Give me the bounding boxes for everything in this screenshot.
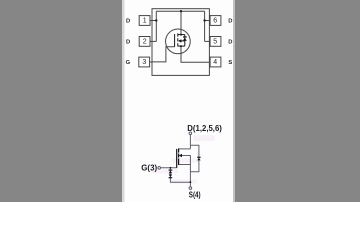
svg-text:D: D: [126, 39, 130, 45]
svg-text:5: 5: [213, 39, 217, 46]
terminal circle S: [189, 187, 192, 190]
wire source exit to pin 4: [181, 46, 209, 62]
Q1 body tap wire: [181, 40, 185, 42]
pin 5 box: [210, 37, 221, 47]
svg-text:D: D: [126, 18, 130, 24]
Q1 gate bar: [174, 34, 176, 47]
wire diode anode to source rail: [190, 160, 199, 172]
wire drain vertical: [189, 135, 191, 149]
compression artifact tints: [150, 135, 215, 184]
Q2 source tap: [179, 164, 191, 166]
wire pin3 stub: [150, 61, 152, 63]
node: drain tap junction: [180, 34, 182, 36]
Q2 channel segment source: [178, 159, 180, 166]
Q2 channel segment drain: [178, 148, 180, 152]
svg-text:S(4): S(4): [189, 190, 201, 199]
svg-text:1: 1: [143, 18, 147, 25]
Q1 channel segment drain: [177, 33, 179, 36]
Q2 gate bar: [176, 149, 178, 168]
body diode D2 cathode bar: [197, 156, 200, 158]
svg-text:3: 3: [142, 59, 146, 66]
node: pin6 bus junction: [203, 19, 205, 21]
pin labels: [126, 18, 233, 66]
wire pin5 stub to right bus: [205, 40, 211, 42]
Q2 drain tap: [179, 148, 191, 150]
wire zener branch to source: [170, 178, 190, 183]
terminal circle D: [189, 132, 192, 135]
package U1 outline: [152, 9, 209, 76]
Q1 channel segment body: [177, 38, 179, 41]
wire source down to terminal: [189, 165, 191, 187]
pin 3 box: [139, 57, 150, 67]
pin 1 box: [139, 16, 150, 26]
Q1 channel segment source: [177, 43, 179, 46]
node: gate zener junction: [170, 167, 172, 169]
zener Z1 triangle: [169, 170, 172, 173]
Q2 body arrow: [179, 154, 182, 157]
wire zener branch down: [169, 168, 171, 170]
right gray pillar: [235, 0, 360, 202]
mosfet Q1 envelope circle: [166, 29, 191, 54]
body diode D1 triangle: [183, 37, 187, 41]
left gray pillar: [0, 0, 122, 202]
terminal circle G: [158, 167, 161, 170]
wire drain vertical to mosfet: [180, 11, 182, 34]
zener Z2 triangle: [169, 174, 172, 177]
node: pin1 bus junction: [155, 19, 157, 21]
wire pin1 stub to left bus: [150, 20, 156, 22]
svg-text:G: G: [126, 60, 131, 66]
svg-text:2: 2: [143, 39, 147, 46]
Q2 body tap wire: [182, 156, 191, 165]
svg-text:D: D: [228, 18, 232, 24]
svg-text:S: S: [228, 60, 232, 66]
Q1 body arrow: [178, 39, 181, 42]
svg-text:D(1,2,5,6): D(1,2,5,6): [187, 124, 222, 133]
wire diode branch: [190, 145, 199, 157]
node: source zener junction: [190, 181, 192, 183]
svg-text:6: 6: [213, 18, 217, 25]
body diode D1 cathode lead: [184, 35, 186, 37]
node: rail junction: [180, 10, 182, 12]
body diode D2 triangle: [197, 158, 200, 161]
svg-text:4: 4: [213, 59, 217, 66]
svg-text:D: D: [228, 39, 232, 45]
wire top drain rail: [156, 10, 204, 12]
pin 2 box: [139, 37, 150, 47]
pin 6 box: [210, 16, 221, 26]
zener Z1 cathode bar: [169, 169, 173, 171]
wire gate horizontal: [161, 167, 177, 169]
wire zener middle: [169, 173, 171, 174]
wire left drain bus: [155, 11, 157, 41]
Q2 channel segment body: [178, 154, 180, 158]
node: source tap junction: [180, 45, 182, 47]
svg-text:G(3): G(3): [141, 163, 157, 172]
wire pin2 stub to left bus: [150, 40, 156, 42]
wire gate exit to pin 3: [152, 47, 175, 62]
body diode D1 anode lead: [184, 41, 186, 46]
wire pin6 stub to right bus: [205, 20, 211, 22]
wire right drain bus: [204, 11, 206, 41]
zener Z2 cathode bar: [169, 177, 173, 179]
pin 4 box: [210, 57, 221, 67]
Q1 source tap: [178, 45, 185, 47]
body diode D1 cathode bar: [183, 36, 187, 38]
Q1 drain tap: [178, 34, 185, 36]
